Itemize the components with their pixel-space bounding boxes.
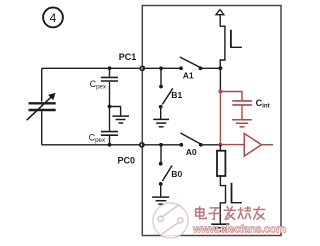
switch B0 [159, 145, 183, 186]
svg-text:4: 4 [50, 11, 57, 25]
烧 [238, 206, 251, 219]
watermark logo circle [153, 203, 188, 238]
red wire PC0 node to amplifier [220, 144, 244, 146]
node junction dot [159, 66, 163, 70]
wire bottom horizontal PC0 [42, 144, 143, 146]
capacitor Cpex (top) [90, 66, 118, 106]
wire node to resistor [219, 145, 221, 151]
op-amp buffer (red) [244, 134, 273, 157]
wire A0 to red node [201, 144, 221, 146]
发 [224, 206, 236, 220]
switch A1 [179, 57, 202, 80]
transistor Q1 (top PMOS) [220, 15, 242, 69]
resistor R [217, 151, 225, 176]
wire PC1 row inside box [142, 67, 181, 69]
svg-text:www.elecfans.com: www.elecfans.com [192, 224, 286, 236]
svg-text:A1: A1 [183, 70, 194, 80]
svg-text:B1: B1 [171, 90, 182, 100]
switch A0 [179, 133, 202, 157]
node red junction [218, 90, 222, 94]
wire red vertical to PC0 row [219, 92, 221, 145]
pin PC0 [140, 143, 144, 147]
子 [208, 208, 221, 219]
switch B1 [159, 68, 183, 108]
svg-text:PC0: PC0 [118, 155, 136, 165]
ground (bottom) [211, 224, 229, 231]
svg-text:A0: A0 [186, 147, 197, 157]
ground (Cint, red) [232, 120, 252, 127]
node junction dot [218, 66, 222, 70]
VDD arrow symbol [216, 10, 224, 15]
pin PC1 [140, 66, 144, 70]
电 [196, 206, 206, 218]
capacitor Cpex (bottom) [89, 107, 118, 147]
svg-text:PC1: PC1 [119, 52, 137, 62]
svg-text:B0: B0 [171, 169, 182, 179]
variable capacitor CX [27, 68, 56, 145]
友 [253, 206, 265, 220]
ground (B1) [153, 107, 169, 127]
wire PC0 row inside box [142, 144, 181, 146]
wire top horizontal PC1 [42, 67, 143, 69]
chip boundary box [142, 6, 281, 236]
capacitor Cint (red) [220, 92, 269, 120]
ground (Cpex midpoint) [108, 105, 129, 123]
watermark text 电子发烧友 (drawn glyphs) [196, 206, 266, 220]
circled 4 annotation [43, 8, 63, 28]
node junction dot [159, 143, 163, 147]
ground (B0) [152, 184, 169, 204]
node red junction PC0 [218, 143, 222, 147]
wire A1 to transistor node [201, 67, 221, 69]
wire transistor to red node [219, 68, 221, 91]
transistor Q2 (bottom NMOS) [220, 176, 242, 224]
